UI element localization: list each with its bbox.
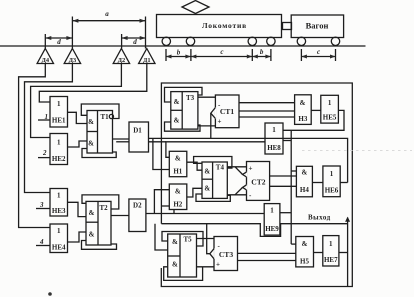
svg-text:2: 2	[42, 149, 47, 157]
svg-text:1: 1	[272, 126, 276, 134]
svg-text:Н1: Н1	[173, 168, 182, 176]
svg-text:НЕ2: НЕ2	[52, 155, 66, 163]
svg-text:1: 1	[329, 240, 333, 248]
svg-text:Д2: Д2	[118, 57, 126, 64]
svg-text:&: &	[172, 261, 178, 269]
svg-text:Н5: Н5	[300, 258, 309, 266]
svg-text:D1: D1	[133, 127, 142, 135]
svg-text:b: b	[177, 49, 181, 57]
svg-text:СТ3: СТ3	[219, 250, 234, 259]
svg-text:b: b	[260, 48, 264, 56]
svg-text:T4: T4	[216, 164, 225, 172]
svg-text:1: 1	[270, 207, 274, 215]
svg-text:НЕ7: НЕ7	[324, 256, 338, 264]
svg-text:&: &	[174, 117, 180, 125]
svg-text:Д1: Д1	[143, 57, 151, 64]
svg-text:НЕ9: НЕ9	[265, 225, 279, 233]
svg-text:T2: T2	[100, 204, 109, 212]
svg-text:3: 3	[39, 201, 44, 209]
svg-text:СТ1: СТ1	[220, 107, 235, 116]
svg-text:1: 1	[57, 100, 61, 108]
svg-text:НЕ1: НЕ1	[52, 117, 66, 125]
svg-text:c: c	[317, 48, 320, 56]
svg-text:+: +	[218, 118, 222, 126]
svg-text:&: &	[172, 238, 178, 246]
svg-text:T3: T3	[186, 94, 195, 102]
svg-text:&: &	[175, 188, 181, 196]
svg-text:-: -	[218, 242, 221, 250]
svg-text:+: +	[216, 261, 220, 269]
svg-text:Локомотив: Локомотив	[202, 21, 247, 30]
svg-text:Вагон: Вагон	[306, 21, 329, 31]
svg-text:&: &	[175, 155, 181, 163]
svg-text:НЕ8: НЕ8	[267, 144, 281, 152]
svg-text:T5: T5	[184, 236, 193, 244]
svg-text:d: d	[57, 38, 61, 46]
svg-text:-: -	[249, 192, 252, 200]
svg-text:&: &	[301, 169, 307, 177]
svg-text:&: &	[204, 185, 210, 193]
svg-text:СТ2: СТ2	[251, 178, 266, 187]
svg-text:1: 1	[328, 99, 332, 107]
svg-text:+: +	[249, 165, 253, 173]
svg-text:&: &	[302, 240, 308, 248]
svg-text:1: 1	[330, 170, 334, 178]
svg-text:&: &	[88, 140, 94, 148]
svg-text:&: &	[89, 231, 95, 239]
svg-text:1: 1	[57, 227, 61, 235]
svg-text:Д4: Д4	[42, 57, 50, 64]
svg-text:c: c	[220, 48, 223, 56]
svg-text:4: 4	[39, 238, 44, 246]
svg-text:T1: T1	[101, 113, 110, 121]
svg-text:НЕ3: НЕ3	[52, 207, 66, 215]
svg-text:Н4: Н4	[300, 186, 309, 194]
svg-text:&: &	[89, 209, 95, 217]
svg-text:НЕ5: НЕ5	[323, 114, 337, 122]
svg-text:&: &	[174, 98, 180, 106]
svg-text:Д3: Д3	[69, 57, 77, 64]
svg-text:НЕ6: НЕ6	[325, 187, 339, 195]
svg-text:1: 1	[57, 192, 61, 200]
svg-text:&: &	[88, 118, 94, 126]
svg-text:1: 1	[45, 113, 49, 121]
svg-text:&: &	[300, 99, 306, 107]
svg-text:d: d	[133, 38, 137, 46]
svg-text:Н3: Н3	[298, 115, 307, 123]
svg-text:a: a	[105, 10, 109, 18]
svg-text:НЕ4: НЕ4	[52, 244, 66, 252]
svg-text:Выход: Выход	[308, 214, 331, 222]
svg-text:Н2: Н2	[173, 201, 182, 209]
svg-text:1: 1	[57, 139, 61, 147]
svg-text:&: &	[204, 168, 210, 176]
svg-text:D2: D2	[133, 202, 142, 210]
